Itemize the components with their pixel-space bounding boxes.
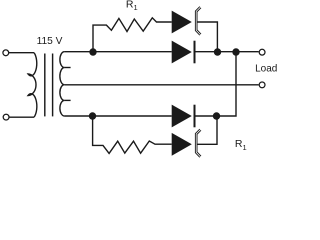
svg-text:Load: Load [255, 64, 277, 75]
svg-text:R1: R1 [235, 138, 247, 152]
svg-text:115 V: 115 V [37, 36, 63, 47]
svg-text:R1: R1 [126, 0, 138, 12]
